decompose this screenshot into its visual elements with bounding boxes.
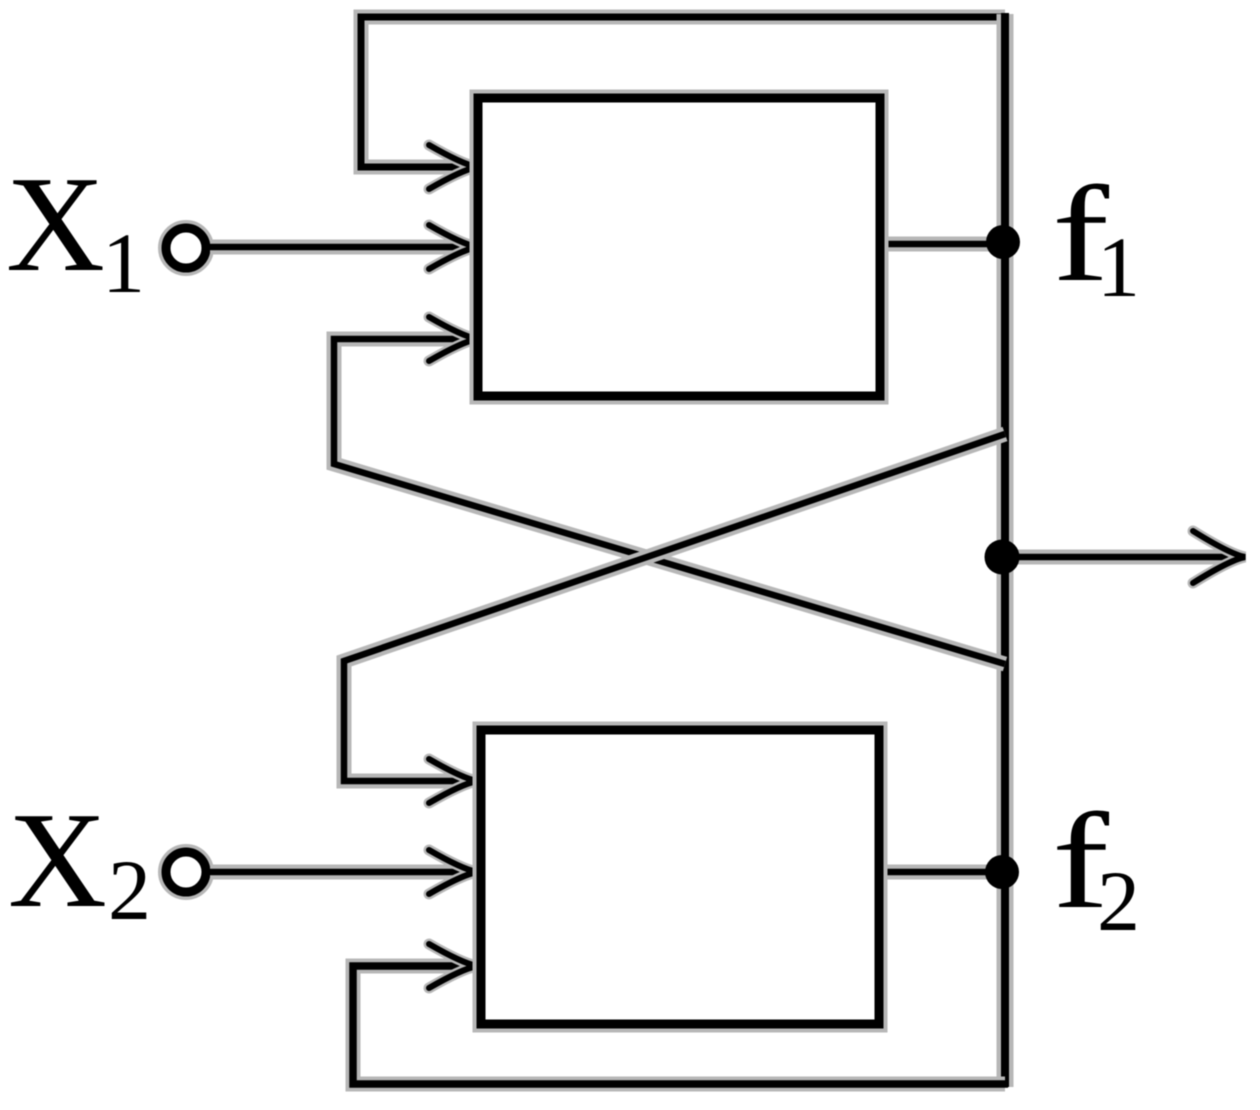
wire top feedback (bus top to block F1 upper input) xyxy=(361,17,1008,189)
wire input X1 to block F1 xyxy=(210,225,477,269)
junction dot f2 xyxy=(985,855,1019,889)
svg-text:X: X xyxy=(8,784,107,936)
input terminal circle X1 xyxy=(166,228,206,268)
junction dot f1 xyxy=(986,225,1020,259)
svg-text:1: 1 xyxy=(102,215,145,311)
wire input X2 to block F2 xyxy=(210,850,477,894)
label X2 xyxy=(8,784,151,938)
wire bottom feedback (bus bottom to block F2 lower input) xyxy=(353,944,1008,1084)
svg-text:1: 1 xyxy=(1097,219,1140,315)
svg-text:2: 2 xyxy=(108,842,151,938)
wire block F1 output to bus xyxy=(876,237,1005,252)
main vertical bus xyxy=(997,13,1014,1087)
junction dot output xyxy=(985,540,1020,575)
block F2 (bottom box) xyxy=(481,730,879,1024)
svg-text:X: X xyxy=(6,148,105,300)
wire system output arrow xyxy=(1005,531,1245,583)
wire cross-coupling from F1 column to F2 upper input xyxy=(344,434,1005,803)
wire cross-coupling from F2 column to F1 lower input xyxy=(334,317,1005,664)
label f1 xyxy=(1052,158,1140,315)
label f2 xyxy=(1052,785,1140,949)
wire block F2 output to bus xyxy=(875,865,1005,880)
block F1 (top box) xyxy=(478,98,880,396)
label X1 xyxy=(6,148,145,311)
svg-text:2: 2 xyxy=(1097,853,1140,949)
input terminal circle X2 xyxy=(166,852,206,892)
